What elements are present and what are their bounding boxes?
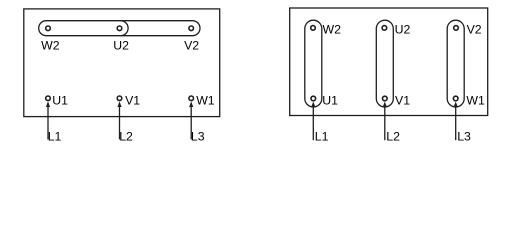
lead wire L3 [190,103,192,139]
svg-text:L1: L1 [48,129,62,143]
lead wire L2 (right) [384,103,386,140]
arrowhead at U1 (right) [311,102,315,107]
svg-text:L3: L3 [191,129,205,143]
terminal W2 [46,26,51,31]
arrowhead at W1 [189,101,193,107]
terminal V1 [117,96,122,101]
lead wire L1 (right) [312,103,314,140]
svg-text:U2: U2 [113,38,129,52]
terminal V2 [189,26,194,31]
svg-text:L1: L1 [315,129,329,143]
link bar (vertical stadium) W2-U1 [305,20,322,107]
svg-text:W1: W1 [466,94,485,108]
terminal box outline (delta connection, right) [290,8,488,116]
terminal V2 (right box) [454,26,459,31]
lead wire L2 [119,103,121,139]
terminal U2 [117,26,122,31]
svg-text:W2: W2 [41,38,60,52]
lead wire L1 [47,103,49,139]
terminal W2 (right box) [311,26,316,31]
svg-text:V2: V2 [467,23,482,37]
terminal W1 (right box) [453,96,458,101]
svg-text:U2: U2 [395,23,411,37]
terminal U1 [46,96,51,101]
svg-text:V1: V1 [125,94,140,108]
link divider arc at U2 [121,21,129,36]
link bar (vertical stadium) V2-W1 [447,20,464,107]
link bar (stadium) W2-U2-V2 [39,21,200,36]
lead wire L3 (right) [455,103,457,140]
terminal W1 [189,96,194,101]
svg-text:L3: L3 [457,129,471,143]
svg-text:L2: L2 [119,129,133,143]
svg-text:W1: W1 [196,94,215,108]
arrowhead at V1 (right) [383,102,387,107]
terminal V1 (right box) [383,96,388,101]
terminal U2 (right box) [382,26,387,31]
svg-text:U1: U1 [52,94,68,108]
svg-text:L2: L2 [386,129,400,143]
arrowhead at V1 [117,101,121,107]
svg-text:U1: U1 [322,94,338,108]
arrowhead at U1 [46,101,50,107]
terminal box outline (star connection, left) [24,9,220,117]
svg-text:V1: V1 [395,94,410,108]
svg-text:W2: W2 [323,23,342,37]
svg-text:V2: V2 [184,38,199,52]
terminal U1 (right box) [311,96,316,101]
arrowhead at W1 (right) [454,102,458,107]
link bar (vertical stadium) U2-V1 [376,20,393,107]
